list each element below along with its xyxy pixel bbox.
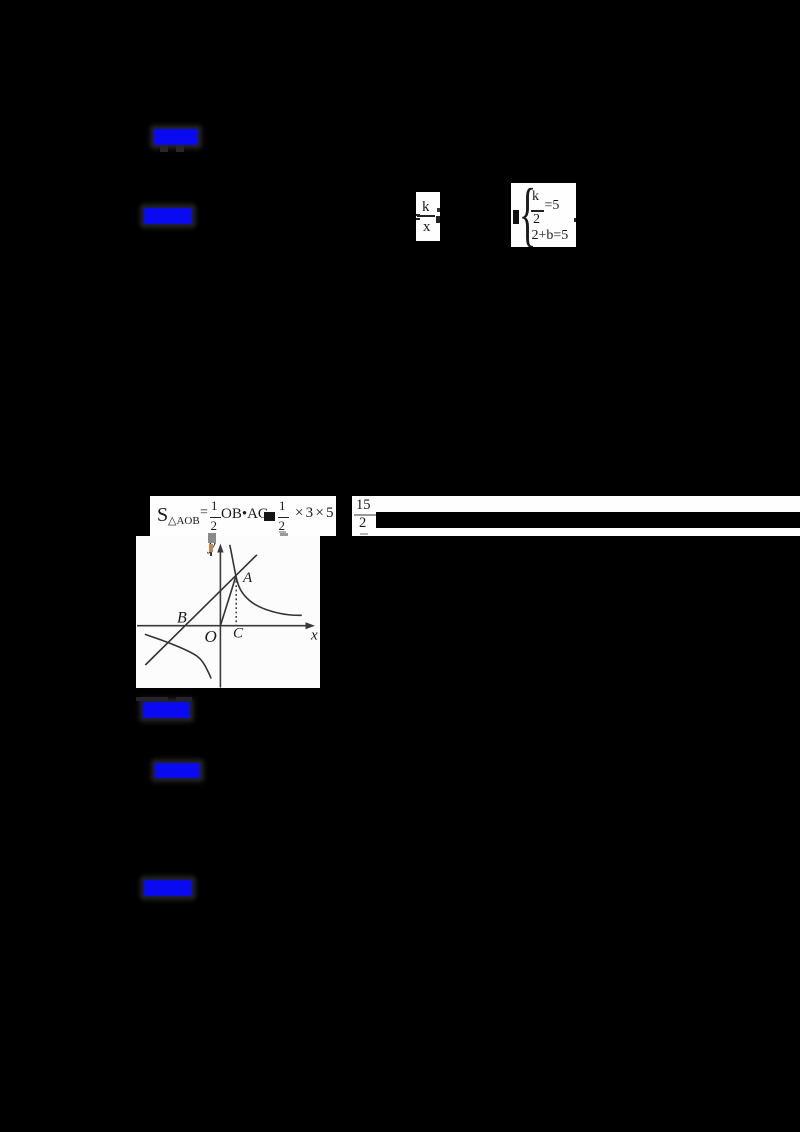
segment OA xyxy=(220,577,235,625)
black bar overlay on white row xyxy=(376,512,800,528)
graph image xyxy=(136,536,321,688)
dark marks above header 3 xyxy=(136,697,168,701)
blue header 5 (answer) xyxy=(144,880,192,896)
hyperbola branch Q1 xyxy=(229,544,301,615)
svg-text:x: x xyxy=(310,627,318,643)
white row with 15/2 formula and strips to right edge xyxy=(352,496,800,536)
dotted altitude AC xyxy=(235,580,237,624)
small pencil-like artifact xyxy=(209,544,213,552)
blue header 3 (comment) xyxy=(143,702,190,718)
y-axis xyxy=(219,547,221,688)
blue header 4 (analysis) xyxy=(155,763,200,779)
gray artifact square above graph xyxy=(208,533,217,543)
dark descender marks under header 1 xyxy=(160,145,168,152)
blue header 2 (answer) xyxy=(144,208,192,224)
x-axis xyxy=(137,624,311,626)
formula image system of equations xyxy=(511,183,576,247)
formula image k/x xyxy=(416,192,441,241)
blue header 1 (analysis) xyxy=(154,129,198,145)
line through B and A xyxy=(145,554,257,664)
gray dash artifact top-right of graph xyxy=(280,533,288,537)
hyperbola branch Q3 xyxy=(144,634,210,678)
svg-text:A: A xyxy=(242,570,253,586)
svg-text:O: O xyxy=(204,627,216,646)
svg-text:C: C xyxy=(233,625,244,641)
svg-text:B: B xyxy=(177,609,187,626)
formula image S triangle AOB xyxy=(150,496,336,536)
